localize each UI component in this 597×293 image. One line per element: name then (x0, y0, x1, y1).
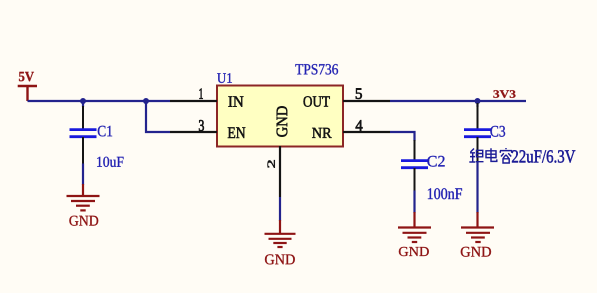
pin 4 line (NR) (343, 131, 390, 133)
pin 1 line (IN) (170, 100, 217, 102)
pin 5 line (OUT) (343, 100, 390, 102)
pin 3 number (199, 120, 204, 131)
pin name IN (228, 96, 243, 106)
value text tantalum cap: glyph tan (CJK) (469, 148, 512, 163)
wire stub at junction A (82, 101, 84, 107)
pin stub C3 top (477, 103, 479, 129)
wire C1 to ground (82, 164, 84, 186)
value 10uF (97, 157, 123, 167)
comment TPS736 (295, 64, 338, 74)
pin name EN (228, 127, 245, 138)
wire C2 to ground (413, 191, 415, 214)
glyph rong (CJK) (500, 148, 512, 163)
ground symbol (pin 2) (265, 220, 296, 247)
pin 3 line (EN) (170, 131, 217, 133)
ground symbol (C2) (398, 212, 431, 242)
label GND (C1) (69, 216, 98, 226)
label GND (pin 2) (265, 254, 295, 264)
net label 3V3 (493, 90, 515, 98)
regulator U1 body (217, 86, 343, 147)
pin stub C1 bottom (82, 137, 84, 164)
pin stub C2 bottom (414, 168, 416, 191)
ground symbol (C3) (461, 212, 494, 242)
value 22uF/6.3V (512, 150, 575, 162)
pin 4 number (356, 120, 363, 130)
designator U1 (217, 73, 232, 83)
wire C3 to ground (476, 162, 478, 213)
capacitor C2 (401, 161, 428, 168)
net label 5V (19, 72, 34, 81)
label GND (C3) (461, 247, 491, 257)
wire NR to C2 (390, 132, 415, 141)
power port 5V bar (18, 86, 37, 101)
wire junction B down to EN pin (146, 101, 170, 132)
wire 5V rail to pin 1 (28, 100, 171, 102)
pin 2 number (267, 160, 274, 167)
junction A (5V / C1) (80, 98, 86, 104)
pin stub C3 bottom (477, 137, 479, 162)
pin stub C2 top (414, 140, 416, 160)
wire C3 junction (476, 101, 478, 107)
pin name GND (rotated) (277, 106, 288, 137)
pin stub C1 top (82, 106, 84, 129)
ground symbol (C1) (67, 184, 100, 210)
pin name OUT (303, 96, 329, 106)
junction C (OUT / C3) (475, 98, 481, 104)
label GND (C2) (399, 247, 429, 256)
designator C2 (427, 156, 444, 167)
junction B (5V / EN) (143, 98, 149, 104)
designator C3 (490, 126, 505, 137)
value 100nF (428, 188, 462, 199)
pin 2 line (GND, bottom) (279, 146, 281, 197)
pin 5 number (356, 88, 362, 99)
wire pin 2 to ground (279, 197, 281, 221)
glyph dian (CJK) (486, 148, 497, 161)
pin 1 number (199, 89, 202, 99)
designator C1 (98, 126, 112, 137)
wire OUT to 3V3 (390, 100, 526, 102)
capacitor C1 (70, 130, 97, 137)
capacitor C3 (464, 130, 491, 137)
pin name NR (312, 128, 331, 138)
